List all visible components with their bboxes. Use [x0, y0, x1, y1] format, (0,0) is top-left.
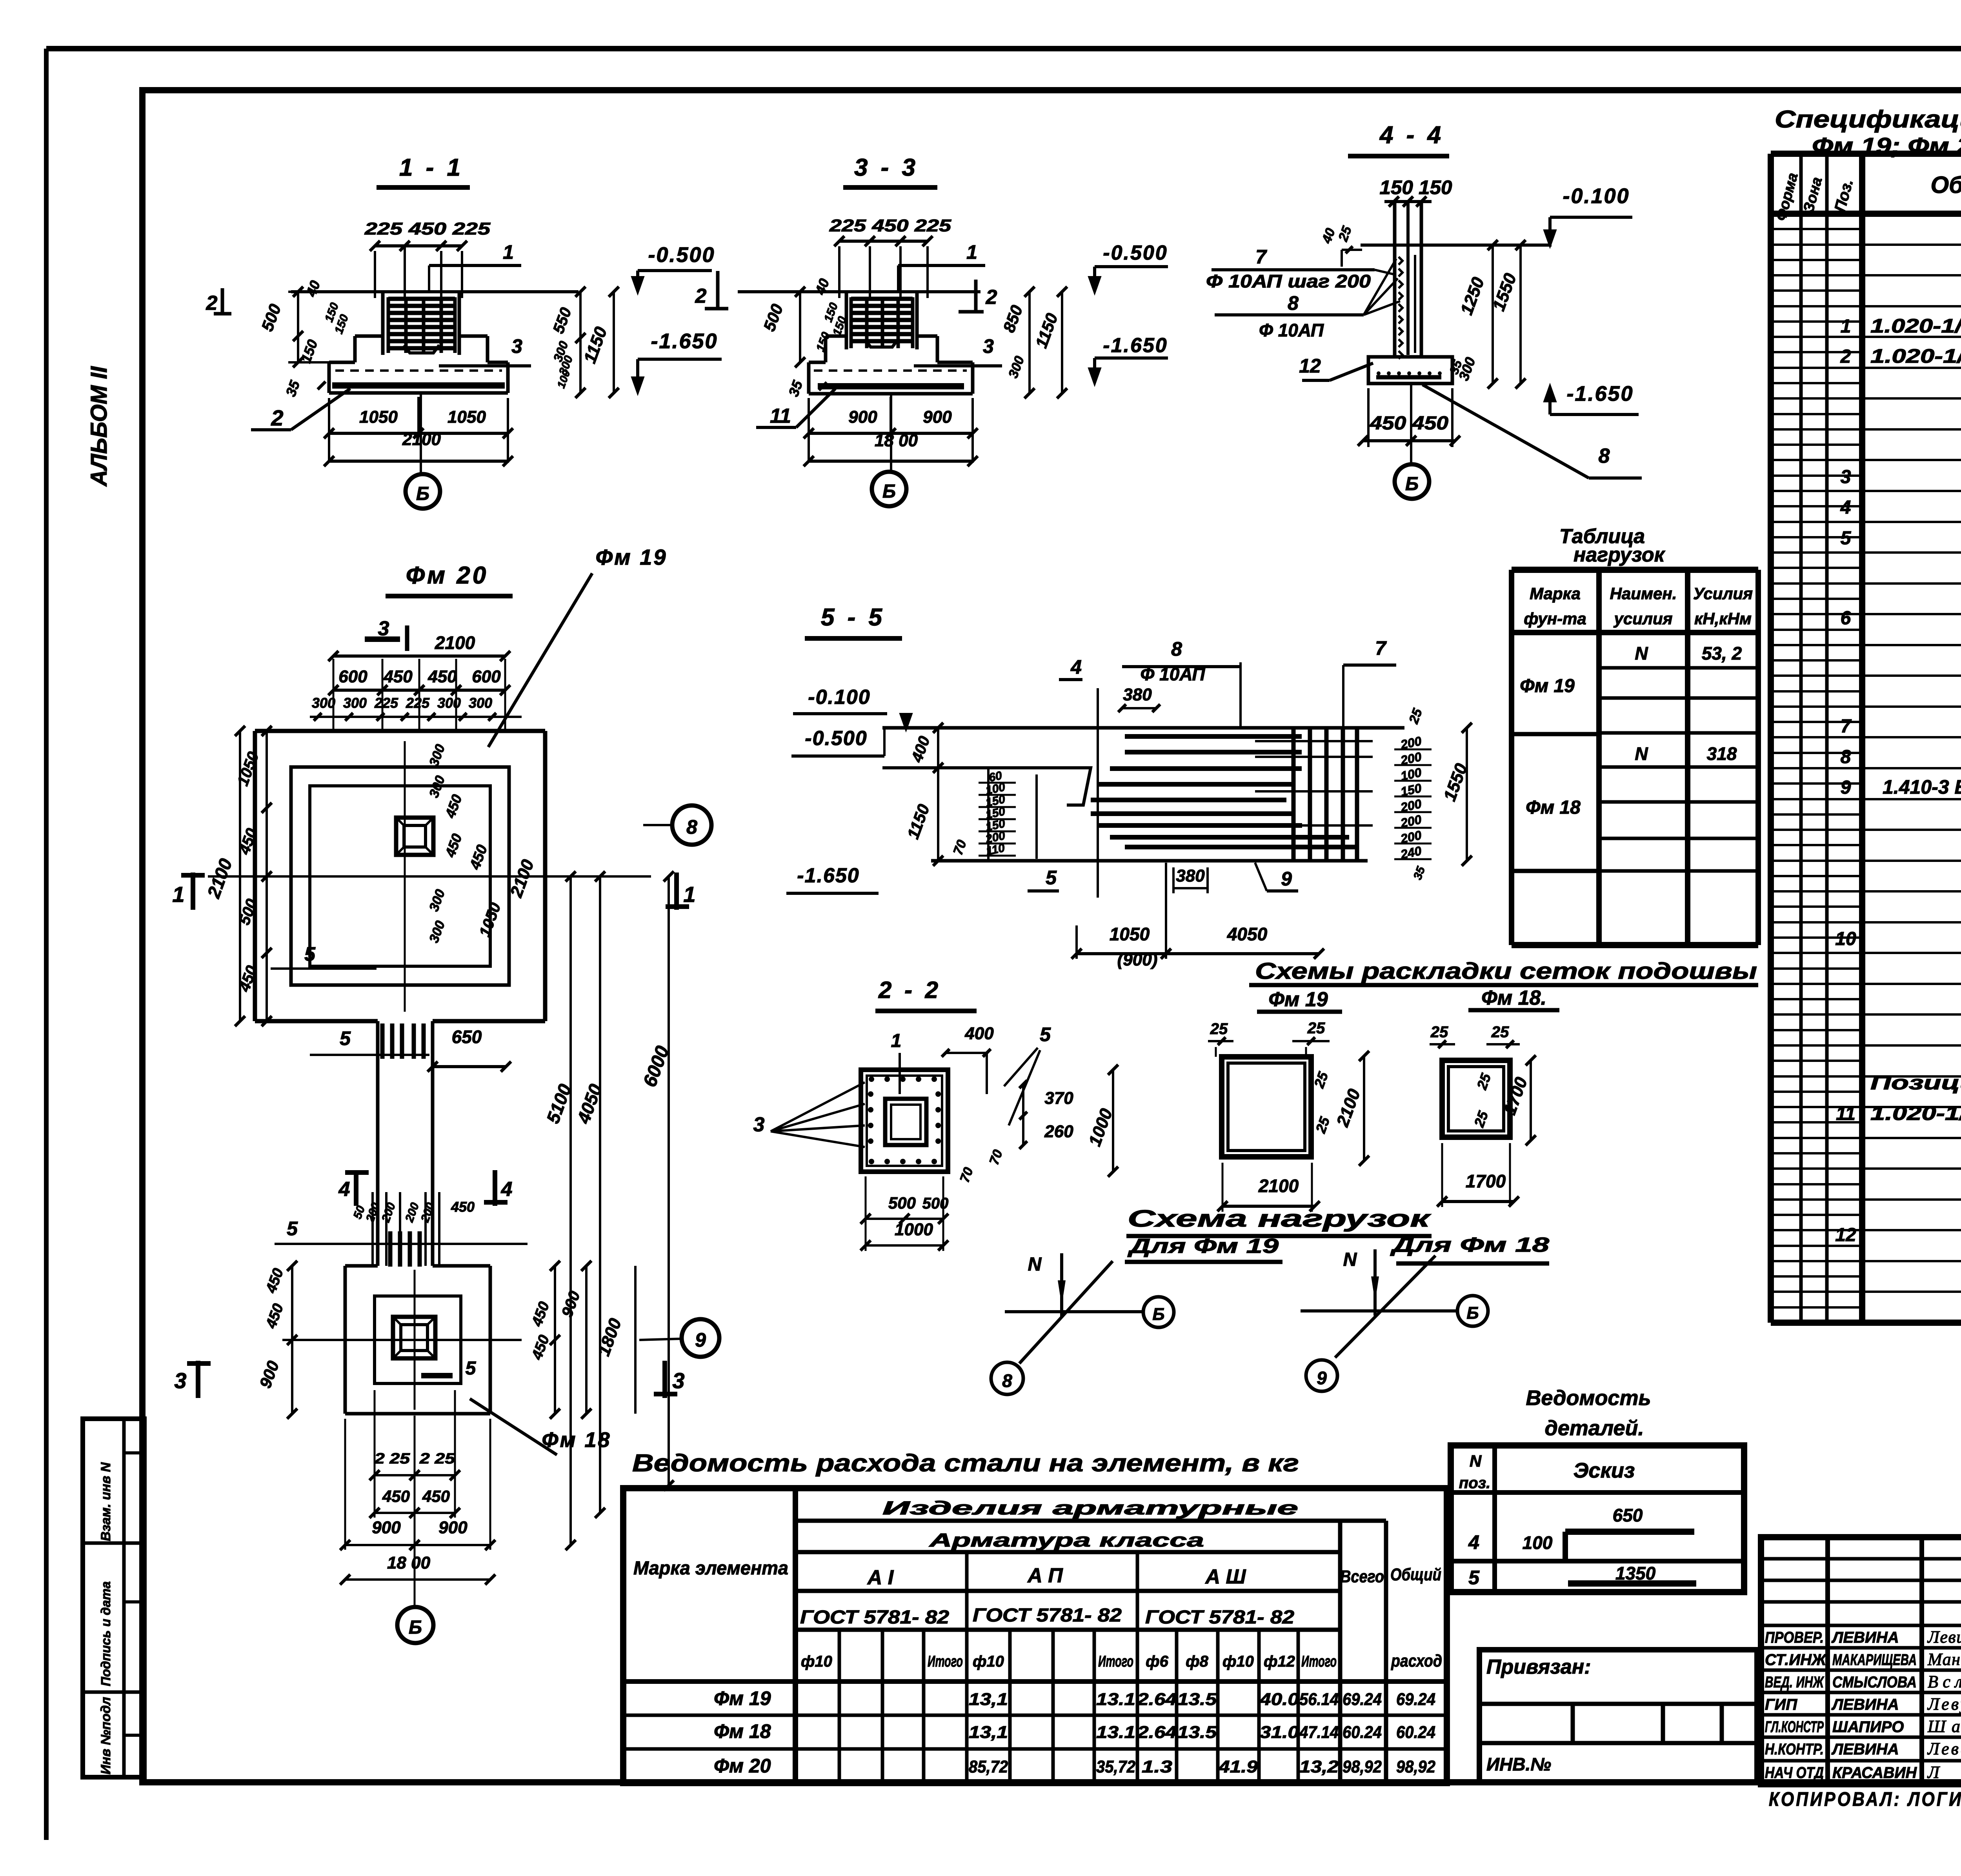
svg-text:-1.650: -1.650 [1103, 334, 1168, 357]
svg-text:225 450 225: 225 450 225 [364, 219, 491, 238]
svg-text:600: 600 [338, 667, 367, 686]
svg-text:900: 900 [923, 407, 952, 427]
svg-text:7: 7 [1841, 716, 1852, 737]
svg-text:фун-та: фун-та [1524, 609, 1586, 628]
svg-text:3: 3 [753, 1113, 765, 1136]
svg-text:650: 650 [452, 1027, 482, 1047]
svg-text:650: 650 [1613, 1505, 1643, 1525]
svg-text:1050: 1050 [1110, 924, 1150, 944]
svg-text:300: 300 [469, 695, 492, 711]
svg-text:-0.100: -0.100 [808, 686, 870, 709]
svg-text:1700: 1700 [1466, 1171, 1506, 1191]
svg-text:4: 4 [501, 1178, 513, 1201]
svg-text:7: 7 [1375, 637, 1387, 659]
svg-text:12: 12 [1299, 355, 1321, 377]
svg-text:31.0: 31.0 [1260, 1723, 1299, 1742]
svg-text:-1.650: -1.650 [1566, 382, 1634, 405]
svg-text:13.5: 13.5 [1177, 1690, 1217, 1709]
svg-text:Марка элемента: Марка элемента [633, 1558, 788, 1579]
svg-text:Позиции 1,3,4,5 см.: Позиции 1,3,4,5 см. [1870, 1072, 1961, 1094]
svg-text:N: N [1028, 1254, 1042, 1275]
svg-text:МАКАРИЩЕВА: МАКАРИЩЕВА [1832, 1651, 1917, 1669]
svg-text:ПРОВЕР.: ПРОВЕР. [1765, 1629, 1824, 1646]
svg-text:53, 2: 53, 2 [1702, 643, 1742, 664]
svg-text:6: 6 [1841, 608, 1851, 629]
svg-text:18 00: 18 00 [387, 1553, 431, 1572]
svg-text:расход: расход [1391, 1651, 1442, 1671]
svg-text:Левед: Левед [1927, 1739, 1961, 1758]
svg-text:СТ.ИНЖ: СТ.ИНЖ [1765, 1651, 1827, 1669]
svg-text:Вслы: Вслы [1928, 1672, 1961, 1691]
svg-text:1.020-1/83 1-1 0.0.10-06: 1.020-1/83 1-1 0.0.10-06 [1870, 315, 1961, 337]
svg-text:2: 2 [1840, 346, 1851, 367]
svg-text:НАЧ ОТД: НАЧ ОТД [1765, 1764, 1824, 1781]
svg-text:Усилия: Усилия [1693, 584, 1753, 603]
svg-text:N: N [1635, 643, 1648, 664]
svg-text:А Ш: А Ш [1205, 1565, 1246, 1588]
svg-text:69.24: 69.24 [1343, 1690, 1382, 1709]
svg-text:Изделия арматурные: Изделия арматурные [882, 1498, 1298, 1519]
svg-text:Б: Б [1152, 1305, 1164, 1324]
svg-text:КОПИРОВАЛ: ЛОГИНОВА: КОПИРОВАЛ: ЛОГИНОВА [1769, 1788, 1961, 1810]
svg-text:18 00: 18 00 [875, 431, 918, 450]
svg-text:ГОСТ 5781- 82: ГОСТ 5781- 82 [973, 1605, 1122, 1626]
svg-text:ф10: ф10 [973, 1653, 1004, 1670]
svg-text:1 - 1: 1 - 1 [399, 154, 464, 181]
svg-text:Фм 18.: Фм 18. [1481, 987, 1546, 1009]
svg-text:-0.100: -0.100 [1563, 184, 1630, 208]
svg-text:2 25: 2 25 [419, 1451, 455, 1467]
svg-text:5: 5 [340, 1027, 351, 1049]
svg-text:Общий: Общий [1390, 1565, 1441, 1584]
svg-text:260: 260 [1044, 1122, 1073, 1141]
svg-text:500: 500 [922, 1195, 949, 1212]
svg-text:Спецификация монолитных фундам: Спецификация монолитных фундаментов [1775, 106, 1961, 133]
svg-text:А П: А П [1027, 1564, 1063, 1587]
svg-text:Б: Б [409, 1617, 422, 1638]
svg-text:ф8: ф8 [1186, 1653, 1208, 1670]
svg-text:Марка: Марка [1530, 584, 1581, 603]
svg-text:Фм 18: Фм 18 [714, 1720, 771, 1742]
svg-text:Наимен.: Наимен. [1610, 584, 1677, 603]
svg-text:ИНВ.№: ИНВ.№ [1486, 1754, 1551, 1774]
svg-text:ЛЕВИНА: ЛЕВИНА [1831, 1696, 1899, 1713]
svg-text:Фм 19: Фм 19 [714, 1687, 771, 1709]
svg-text:11: 11 [770, 405, 791, 427]
svg-text:деталей.: деталей. [1544, 1416, 1644, 1440]
svg-text:3: 3 [511, 335, 522, 357]
svg-text:400: 400 [964, 1024, 994, 1043]
svg-text:1050: 1050 [448, 407, 486, 427]
svg-text:7: 7 [1255, 246, 1267, 268]
svg-text:2100: 2100 [1258, 1176, 1299, 1196]
svg-text:Инв №подл: Инв №подл [98, 1697, 113, 1774]
svg-text:10: 10 [1835, 929, 1856, 949]
svg-text:900: 900 [848, 407, 877, 427]
svg-text:5: 5 [1040, 1023, 1051, 1045]
svg-text:2 - 2: 2 - 2 [878, 977, 941, 1003]
svg-text:-0.500: -0.500 [1103, 242, 1168, 264]
svg-text:13.5: 13.5 [1177, 1723, 1217, 1742]
svg-text:8: 8 [1288, 292, 1299, 314]
svg-text:380: 380 [1176, 866, 1205, 885]
svg-text:318: 318 [1707, 743, 1737, 764]
svg-text:кН,кНм: кН,кНм [1694, 609, 1752, 628]
svg-text:ГОСТ 5781- 82: ГОСТ 5781- 82 [1145, 1607, 1294, 1628]
svg-text:Эскиз: Эскиз [1574, 1459, 1635, 1482]
svg-text:ф6: ф6 [1146, 1653, 1168, 1670]
svg-text:СМЫСЛОВА: СМЫСЛОВА [1832, 1674, 1917, 1691]
svg-text:Всего: Всего [1340, 1567, 1384, 1586]
svg-text:ф10: ф10 [801, 1653, 832, 1670]
svg-text:900: 900 [372, 1518, 401, 1537]
svg-text:25: 25 [1430, 1023, 1448, 1041]
svg-text:8: 8 [1002, 1371, 1012, 1391]
svg-text:13.1: 13.1 [1096, 1690, 1135, 1709]
svg-text:-0.500: -0.500 [648, 243, 715, 267]
svg-text:2: 2 [695, 285, 707, 307]
svg-text:9: 9 [1281, 868, 1292, 890]
svg-text:1.020-1/83 1-10.0.20-04: 1.020-1/83 1-10.0.20-04 [1870, 345, 1961, 367]
svg-text:Манор: Манор [1927, 1650, 1961, 1669]
svg-text:1.3: 1.3 [1142, 1757, 1172, 1776]
svg-text:ШАПИРО: ШАПИРО [1832, 1718, 1904, 1736]
svg-text:-1.650: -1.650 [651, 329, 718, 353]
svg-text:25: 25 [1491, 1023, 1509, 1041]
svg-text:450: 450 [383, 667, 413, 686]
svg-text:150 150: 150 150 [1380, 176, 1452, 198]
svg-text:2 25: 2 25 [374, 1451, 410, 1467]
svg-text:АЛЬБОМ II: АЛЬБОМ II [86, 366, 112, 487]
svg-text:5: 5 [1046, 867, 1057, 889]
svg-text:Для Фм 18: Для Фм 18 [1390, 1234, 1549, 1256]
svg-text:100: 100 [1523, 1532, 1553, 1553]
svg-text:А I: А I [867, 1566, 894, 1589]
svg-text:25: 25 [1307, 1020, 1325, 1037]
svg-text:Схема нагрузок: Схема нагрузок [1128, 1205, 1431, 1232]
svg-text:N: N [1470, 1452, 1482, 1470]
svg-text:900: 900 [438, 1518, 468, 1537]
svg-text:ф10: ф10 [1222, 1653, 1254, 1670]
svg-text:4 - 4: 4 - 4 [1379, 122, 1444, 149]
svg-text:ЛЕВИНА: ЛЕВИНА [1831, 1741, 1899, 1758]
svg-text:КРАСАВИН: КРАСАВИН [1832, 1764, 1917, 1781]
svg-text:98,92: 98,92 [1396, 1757, 1435, 1776]
svg-text:60.24: 60.24 [1343, 1723, 1382, 1742]
svg-text:8: 8 [1171, 638, 1182, 660]
svg-text:69.24: 69.24 [1396, 1690, 1435, 1709]
svg-text:1000: 1000 [895, 1220, 933, 1239]
svg-text:1.410-3 Вып.1: 1.410-3 Вып.1 [1883, 776, 1961, 798]
svg-text:ГЛ.КОНСТР: ГЛ.КОНСТР [1765, 1718, 1824, 1736]
svg-text:Б: Б [882, 481, 896, 502]
svg-text:56.14: 56.14 [1299, 1690, 1339, 1709]
svg-text:1: 1 [891, 1031, 902, 1051]
svg-text:Фм 18: Фм 18 [542, 1428, 611, 1452]
svg-text:5: 5 [287, 1218, 298, 1240]
svg-text:нагрузок: нагрузок [1574, 544, 1666, 566]
svg-text:5: 5 [1841, 528, 1852, 549]
svg-text:60.24: 60.24 [1396, 1723, 1435, 1742]
svg-text:500: 500 [888, 1194, 916, 1212]
svg-text:4: 4 [338, 1178, 350, 1201]
svg-text:3 - 3: 3 - 3 [854, 154, 919, 181]
svg-text:2: 2 [986, 286, 997, 309]
svg-text:4: 4 [1070, 656, 1082, 678]
svg-text:Взам. инв N: Взам. инв N [98, 1462, 113, 1541]
svg-text:ВЕД. ИНЖ: ВЕД. ИНЖ [1765, 1674, 1824, 1691]
svg-text:9: 9 [1841, 777, 1851, 798]
svg-text:Н.КОНТР.: Н.КОНТР. [1765, 1741, 1824, 1758]
svg-text:380: 380 [1123, 685, 1152, 704]
svg-text:4: 4 [1468, 1531, 1479, 1553]
svg-text:Подпись и дата: Подпись и дата [98, 1582, 113, 1687]
svg-text:300: 300 [312, 695, 335, 711]
svg-text:8: 8 [1841, 747, 1851, 767]
svg-text:8: 8 [1599, 445, 1610, 467]
svg-text:9: 9 [695, 1329, 706, 1351]
svg-text:Схемы раскладки сеток подошвы: Схемы раскладки сеток подошвы [1255, 958, 1757, 984]
svg-text:Ф 10АП шаг 200: Ф 10АП шаг 200 [1206, 271, 1371, 291]
svg-text:450: 450 [451, 1199, 475, 1215]
svg-text:40.0: 40.0 [1259, 1690, 1299, 1709]
svg-text:4050: 4050 [1227, 924, 1268, 944]
svg-text:13,1: 13,1 [969, 1690, 1008, 1709]
svg-text:1: 1 [503, 241, 514, 263]
svg-text:370: 370 [1044, 1089, 1073, 1108]
svg-text:ГИП: ГИП [1765, 1696, 1797, 1713]
svg-text:Арматура класса: Арматура класса [929, 1530, 1204, 1551]
svg-text:Фм 20: Фм 20 [406, 562, 488, 589]
svg-text:Обозначение: Обозначение [1930, 172, 1961, 198]
svg-text:ЛЕВИНА: ЛЕВИНА [1831, 1629, 1899, 1646]
svg-text:4: 4 [1840, 497, 1851, 518]
svg-text:ф12: ф12 [1264, 1653, 1295, 1670]
svg-text:Фм 19: Фм 19 [1520, 676, 1575, 696]
svg-text:Б: Б [1405, 474, 1419, 494]
svg-text:Для Фм 19: Для Фм 19 [1127, 1235, 1279, 1258]
svg-text:1: 1 [1841, 316, 1851, 337]
svg-text:Итого: Итого [1098, 1653, 1133, 1670]
svg-text:47.14: 47.14 [1299, 1723, 1339, 1742]
svg-text:поз.: поз. [1459, 1474, 1490, 1492]
svg-text:Ф 10АП: Ф 10АП [1259, 320, 1324, 340]
svg-text:3: 3 [983, 335, 994, 357]
svg-text:13,1: 13,1 [969, 1723, 1008, 1742]
svg-text:Ведомость расхода стали на эле: Ведомость расхода стали на элемент, в кг [632, 1450, 1299, 1477]
svg-text:3: 3 [1841, 467, 1851, 487]
svg-text:5: 5 [1468, 1567, 1480, 1589]
svg-text:450 450: 450 450 [1370, 413, 1448, 434]
svg-text:Б: Б [416, 484, 429, 504]
svg-text:13,2: 13,2 [1299, 1757, 1339, 1776]
svg-text:35,72: 35,72 [1096, 1757, 1135, 1776]
svg-text:300: 300 [437, 695, 461, 711]
svg-text:5: 5 [304, 943, 316, 965]
svg-text:1050: 1050 [359, 407, 398, 427]
svg-text:8: 8 [686, 816, 697, 838]
svg-text:1: 1 [683, 882, 695, 907]
svg-text:усилия: усилия [1614, 609, 1673, 628]
svg-text:450: 450 [382, 1487, 410, 1505]
svg-text:1: 1 [172, 882, 184, 907]
svg-text:9: 9 [1317, 1368, 1327, 1388]
svg-text:2: 2 [271, 405, 283, 430]
svg-text:Итого: Итого [1301, 1653, 1337, 1670]
svg-text:Фм 18: Фм 18 [1526, 797, 1581, 818]
svg-text:300: 300 [343, 695, 367, 711]
svg-text:-1.650: -1.650 [797, 864, 859, 887]
svg-text:5 - 5: 5 - 5 [821, 604, 885, 631]
svg-text:13.1: 13.1 [1096, 1723, 1135, 1742]
svg-text:85,72: 85,72 [969, 1757, 1008, 1776]
svg-text:225 450 225: 225 450 225 [829, 216, 951, 235]
svg-text:-0.500: -0.500 [805, 727, 867, 750]
svg-text:2100: 2100 [435, 633, 475, 653]
svg-text:1.020-1/83. 1-1 0.10-04: 1.020-1/83. 1-1 0.10-04 [1870, 1102, 1961, 1124]
svg-text:Фм 19: Фм 19 [596, 545, 668, 569]
svg-text:Итого: Итого [928, 1653, 963, 1670]
svg-text:11: 11 [1836, 1103, 1855, 1124]
svg-text:225: 225 [374, 695, 398, 711]
svg-text:98,92: 98,92 [1343, 1757, 1382, 1776]
svg-text:450: 450 [422, 1487, 450, 1505]
svg-text:Ведомость: Ведомость [1526, 1386, 1651, 1410]
svg-text:1: 1 [966, 241, 977, 263]
svg-text:225: 225 [406, 695, 430, 711]
svg-text:3: 3 [672, 1368, 684, 1393]
svg-text:2.64: 2.64 [1137, 1723, 1177, 1742]
svg-text:Б: Б [1466, 1303, 1479, 1323]
svg-text:ГОСТ 5781- 82: ГОСТ 5781- 82 [800, 1607, 949, 1628]
svg-text:2.64: 2.64 [1137, 1690, 1177, 1709]
svg-text:Левуч: Левуч [1927, 1694, 1961, 1714]
svg-text:Фм 19: Фм 19 [1268, 988, 1328, 1011]
svg-text:Шат: Шат [1927, 1717, 1961, 1736]
svg-text:12: 12 [1835, 1225, 1856, 1245]
svg-text:3: 3 [174, 1368, 186, 1393]
svg-text:N: N [1635, 743, 1648, 764]
svg-text:41.9: 41.9 [1218, 1757, 1258, 1776]
svg-text:5: 5 [466, 1358, 477, 1379]
svg-text:25: 25 [1210, 1020, 1228, 1038]
svg-text:Фм 20: Фм 20 [714, 1755, 771, 1777]
svg-text:Привязан:: Привязан: [1486, 1656, 1591, 1678]
svg-text:600: 600 [472, 667, 501, 686]
svg-text:N: N [1343, 1249, 1357, 1270]
svg-text:450: 450 [427, 667, 457, 686]
svg-text:2: 2 [206, 292, 218, 314]
